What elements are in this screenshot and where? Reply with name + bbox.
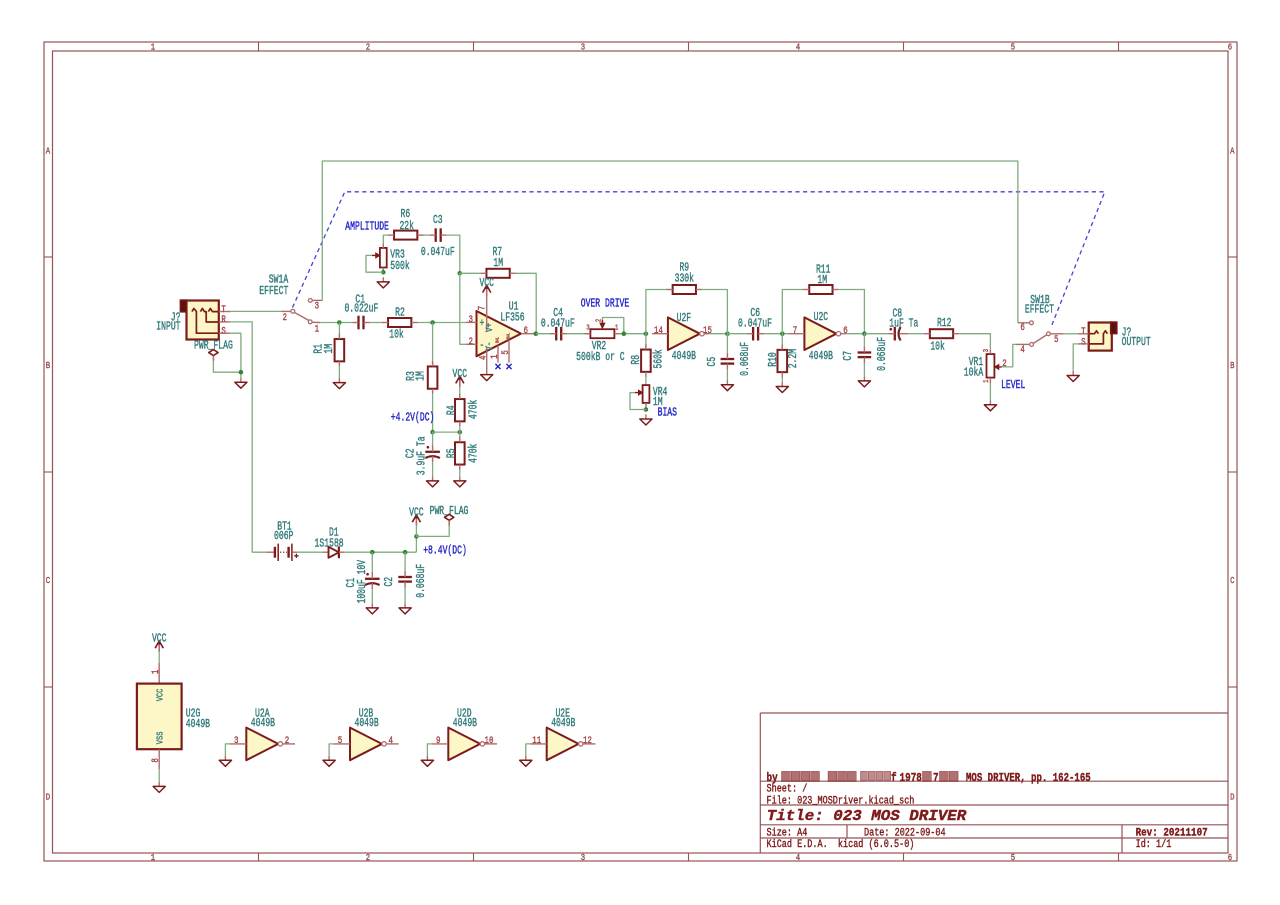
svg-text:1: 1 xyxy=(151,852,156,863)
switch SW1A pin3 circle xyxy=(308,299,312,303)
inverter U2B 4049B xyxy=(350,728,382,761)
junction C1 power tap xyxy=(370,550,375,555)
svg-text:V+: V+ xyxy=(484,323,496,332)
svg-text:2: 2 xyxy=(285,736,290,747)
U2E output pin xyxy=(583,743,595,745)
svg-text:4: 4 xyxy=(1020,345,1025,356)
svg-text:AMPLITUDE: AMPLITUDE xyxy=(345,220,389,233)
svg-text:C3: C3 xyxy=(433,214,443,227)
resistor R4 xyxy=(455,399,465,421)
svg-text:22k: 22k xyxy=(399,220,414,233)
wire U2G pin8 to ground xyxy=(158,769,160,782)
switch SW1A pin2 circle xyxy=(291,309,295,313)
junction input sleeve xyxy=(239,370,244,375)
wire C7 to ground xyxy=(863,363,865,376)
svg-text:5: 5 xyxy=(501,350,512,355)
U2B output pin xyxy=(386,743,398,745)
U2B input pin xyxy=(333,743,350,745)
svg-text:R6: R6 xyxy=(401,208,411,221)
svg-text:File: 023_MOSDriver.kicad_sch: File: 023_MOSDriver.kicad_sch xyxy=(767,796,915,808)
junction U2F input node xyxy=(644,331,649,336)
svg-text:11: 11 xyxy=(532,736,541,747)
U2A input pin xyxy=(229,743,246,745)
switch SW1A pin3 stub xyxy=(312,299,322,301)
switch SW1B pin4 circle xyxy=(1030,343,1034,347)
wire node to R10 xyxy=(781,334,783,351)
svg-text:330k: 330k xyxy=(675,273,694,286)
wire VCC to R4 xyxy=(459,387,461,399)
U2D output pin xyxy=(485,743,497,745)
PWR_FLAG (battery) symbol xyxy=(445,514,454,520)
capacitor C8 1uF Ta xyxy=(894,327,896,341)
svg-text:4049B: 4049B xyxy=(186,718,210,731)
ground U2B xyxy=(328,756,330,761)
wire R6 to C3 xyxy=(424,234,430,236)
svg-text:Id: 1/1: Id: 1/1 xyxy=(1136,839,1172,851)
svg-text:4049B: 4049B xyxy=(251,717,275,730)
resistor R6 xyxy=(394,231,417,240)
wire R2 to U1 pin3 xyxy=(418,322,466,324)
ground R1 xyxy=(338,378,340,383)
U2C input pin xyxy=(788,333,804,335)
junction U2F output node xyxy=(725,331,730,336)
svg-text:6: 6 xyxy=(1020,323,1025,334)
svg-text:INPUT: INPUT xyxy=(156,320,180,333)
resistor R3 xyxy=(428,366,438,388)
wire SW1A pin1 to C1 xyxy=(320,322,352,324)
wire SW1B pin5 to output jack xyxy=(1064,333,1078,335)
resistor R12 xyxy=(930,329,953,338)
svg-text:VCC: VCC xyxy=(453,368,468,381)
svg-text:VCC: VCC xyxy=(479,277,494,290)
svg-text:0.047uF: 0.047uF xyxy=(738,318,772,331)
ground C7 xyxy=(863,376,865,381)
junction C2 power tap xyxy=(403,550,408,555)
wire R11 feedback right xyxy=(839,290,865,334)
svg-text:9: 9 xyxy=(436,736,441,747)
ground C1 (power) xyxy=(371,603,373,608)
junction R3 tap xyxy=(430,320,435,325)
potentiometer VR4 body xyxy=(643,385,650,403)
svg-text:VCC: VCC xyxy=(154,688,165,701)
switch SW1B pin5 stub xyxy=(1050,333,1064,335)
wire node to R8 xyxy=(645,334,647,350)
switch SW1B pin5 circle xyxy=(1047,332,1051,336)
svg-text:3: 3 xyxy=(983,349,991,353)
svg-text:4049B: 4049B xyxy=(551,717,575,730)
svg-text:LF356: LF356 xyxy=(500,311,524,324)
svg-text:PWR_FLAG: PWR_FLAG xyxy=(430,505,469,518)
junction R1 tap xyxy=(337,320,342,325)
power VCC (battery rail) xyxy=(415,517,417,526)
wire U2E input to ground xyxy=(526,744,530,756)
svg-text:B: B xyxy=(1230,360,1235,371)
svg-text:500k: 500k xyxy=(390,260,409,273)
wire VR2 wiper loop xyxy=(602,318,623,334)
svg-text:EFFECT: EFFECT xyxy=(1025,304,1054,317)
svg-text:f: f xyxy=(891,772,897,785)
svg-text:C7: C7 xyxy=(842,351,855,361)
title block frame xyxy=(759,713,761,853)
svg-text:2: 2 xyxy=(1002,359,1007,370)
wire to PWR_FLAG xyxy=(416,526,449,537)
U2G pin1 line xyxy=(158,663,160,684)
ground C2 (power) xyxy=(404,603,406,608)
wire C2 to ground xyxy=(432,462,434,476)
wire junction to R3 xyxy=(432,323,434,367)
svg-text:0.022uF: 0.022uF xyxy=(344,302,378,315)
svg-text:7: 7 xyxy=(933,772,939,785)
svg-text:VCC: VCC xyxy=(152,633,167,646)
potentiometer VR2 body xyxy=(590,329,614,338)
wire C6 to U2C xyxy=(764,333,788,335)
wire U2D input to ground xyxy=(427,744,431,756)
capacitor C5 xyxy=(721,358,735,360)
ground R10 xyxy=(781,382,783,387)
power VCC above U2G xyxy=(158,643,160,652)
ground R5 xyxy=(459,476,461,481)
capacitor C1 xyxy=(357,316,359,330)
svg-text:1uF Ta: 1uF Ta xyxy=(889,318,918,331)
svg-text:R10: R10 xyxy=(767,352,780,367)
wire node to C8 xyxy=(864,333,892,335)
wire node down to U1 pin2 xyxy=(460,273,466,344)
wire C3 to R7 node xyxy=(447,235,460,273)
switch SW1A pin1 stub xyxy=(312,321,320,323)
wire R3 to +4.2V junction xyxy=(432,394,434,432)
svg-text:2: 2 xyxy=(469,337,474,348)
svg-text:LEVEL: LEVEL xyxy=(1001,379,1025,392)
svg-text:15: 15 xyxy=(703,326,712,337)
svg-text:10: 10 xyxy=(485,736,494,747)
svg-text:1M: 1M xyxy=(415,371,428,381)
ground output jack xyxy=(1072,371,1074,376)
svg-text:R5: R5 xyxy=(445,448,458,458)
IC U2G 4049B power block xyxy=(137,684,182,750)
wire C1 power down xyxy=(371,552,373,573)
wire VCC to U2G pin1 xyxy=(158,652,160,663)
svg-text:2: 2 xyxy=(366,42,371,53)
wire R7 right to U1 output xyxy=(516,273,536,333)
svg-text:VSS: VSS xyxy=(154,731,165,744)
svg-text:1M: 1M xyxy=(817,274,827,287)
wire node to C6 xyxy=(727,333,747,335)
switch SW1B lever xyxy=(1033,335,1046,344)
svg-text:R2: R2 xyxy=(395,306,405,319)
wire junction to R1 xyxy=(338,323,340,340)
U2A output pin xyxy=(283,743,295,745)
svg-text:6: 6 xyxy=(1228,852,1233,863)
switch SW1A lever xyxy=(294,312,308,320)
U2G pin8 line xyxy=(158,749,160,769)
inverter U2D 4049B xyxy=(448,728,480,761)
wire R1 to ground xyxy=(338,367,340,378)
svg-text:1: 1 xyxy=(151,670,162,675)
ground VR3 xyxy=(382,277,384,282)
svg-text:U2C: U2C xyxy=(814,311,829,324)
svg-text:10k: 10k xyxy=(930,341,945,354)
resistor R7 xyxy=(486,269,509,278)
svg-text:3: 3 xyxy=(469,315,474,326)
PWR_FLAG (input) symbol xyxy=(209,350,218,356)
svg-text:5: 5 xyxy=(1011,42,1016,53)
resistor R5 xyxy=(455,442,465,464)
svg-text:+4.2V(DC): +4.2V(DC) xyxy=(391,412,435,425)
wire R9 feedback right xyxy=(702,290,728,334)
svg-text:R: R xyxy=(221,315,226,326)
op-amp U1 LF356 xyxy=(477,311,522,356)
no-connect X U1 pin5 xyxy=(506,364,511,369)
resistor R9 xyxy=(673,285,696,294)
wire to VCC arrow xyxy=(415,526,417,537)
no-connect X U1 pin1 xyxy=(495,364,500,369)
ground C5 xyxy=(726,380,728,385)
svg-text:0.068uF: 0.068uF xyxy=(876,337,889,371)
wire U2F out to C5 node xyxy=(709,333,727,335)
capacitor C7 xyxy=(858,351,872,353)
ground U2E xyxy=(525,756,527,761)
svg-text:KiCad E.D.A. kicad (6.0.5-0): KiCad E.D.A. kicad (6.0.5-0) xyxy=(767,839,915,851)
input jack J? xyxy=(187,301,219,340)
svg-text:3: 3 xyxy=(234,736,239,747)
junction U1 output xyxy=(534,331,539,336)
svg-text:1M: 1M xyxy=(493,257,503,270)
resistor R11 xyxy=(809,285,832,294)
wire VR1 wiper to SW1B pin4 xyxy=(1002,344,1016,367)
battery BT1 xyxy=(266,551,274,553)
wire C1 to R2 xyxy=(370,322,382,324)
wire bias node to C2 xyxy=(432,432,434,446)
svg-text:D: D xyxy=(1230,791,1235,802)
power VCC above R4 xyxy=(459,378,461,387)
svg-text:MOS DRIVER, pp. 162-165: MOS DRIVER, pp. 162-165 xyxy=(966,772,1091,785)
ground U2G xyxy=(158,782,160,787)
svg-text:A: A xyxy=(1230,145,1235,156)
svg-text:A: A xyxy=(46,145,51,156)
svg-text:7: 7 xyxy=(478,306,489,311)
svg-text:4049B: 4049B xyxy=(453,717,477,730)
output jack J? xyxy=(1089,323,1112,351)
svg-text:3: 3 xyxy=(581,852,586,863)
capacitor C2 0.068uF (power) xyxy=(398,576,412,578)
svg-text:R8: R8 xyxy=(630,355,643,365)
wire U2B input to ground xyxy=(329,744,333,756)
svg-text:S: S xyxy=(1081,337,1086,348)
svg-text:8: 8 xyxy=(151,758,162,763)
wire C8 to R12 xyxy=(908,333,924,335)
svg-text:100uF 10V: 100uF 10V xyxy=(356,560,369,604)
svg-text:BIAS: BIAS xyxy=(658,406,677,419)
wire R12 to VR1 xyxy=(959,334,990,350)
svg-text:10kA: 10kA xyxy=(964,367,983,380)
wire U1 out to C4 xyxy=(536,333,553,335)
inverter U2F 4049B xyxy=(668,317,700,350)
svg-text:0.068uF: 0.068uF xyxy=(739,342,752,376)
svg-text:Date: 2022-09-04: Date: 2022-09-04 xyxy=(864,827,946,839)
ground VR1 xyxy=(989,400,991,405)
svg-text:4049B: 4049B xyxy=(672,350,696,363)
resistor R10 xyxy=(778,350,788,372)
svg-text:5: 5 xyxy=(338,736,343,747)
U2E input pin xyxy=(530,743,547,745)
svg-text:OUTPUT: OUTPUT xyxy=(1122,336,1151,349)
svg-text:R12: R12 xyxy=(937,317,952,330)
capacitor C4 xyxy=(555,327,557,341)
junction U2C output node xyxy=(862,331,867,336)
wire C4 to VR2 xyxy=(567,333,590,335)
wire R11 feedback left xyxy=(782,290,803,334)
svg-text:C: C xyxy=(1230,575,1235,586)
switch SW1A pin1 circle xyxy=(308,320,312,324)
svg-text:560k: 560k xyxy=(653,349,666,368)
dashed blue bypass line xyxy=(293,192,1105,328)
svg-text:470k: 470k xyxy=(468,400,481,419)
wire R9 feedback left xyxy=(646,290,667,334)
inverter U2E 4049B xyxy=(547,728,579,761)
svg-text:D: D xyxy=(46,791,51,802)
svg-text:4049B: 4049B xyxy=(355,717,379,730)
wire VR4 bottom stub xyxy=(642,409,646,411)
svg-text:EFFECT: EFFECT xyxy=(259,285,288,298)
svg-text:B: B xyxy=(46,360,51,371)
junction U2C input node xyxy=(780,331,785,336)
frame division ticks xyxy=(258,42,260,51)
junction VR2 wiper tie xyxy=(622,331,627,336)
svg-text:14: 14 xyxy=(654,326,663,337)
wire VR3 wiper to bottom xyxy=(366,255,379,272)
svg-text:5: 5 xyxy=(1011,852,1016,863)
switch SW1B pin4 stub xyxy=(1016,343,1030,345)
potentiometer VR3 body xyxy=(380,248,387,268)
wire power rail up xyxy=(415,536,417,552)
U2C output pin xyxy=(841,333,846,335)
svg-text:3: 3 xyxy=(581,42,586,53)
wire U2A input to ground xyxy=(225,744,229,756)
wire VR3 top to R6 xyxy=(383,235,388,243)
switch SW1A pin2 stub xyxy=(281,310,291,312)
ground input sleeve xyxy=(240,378,242,383)
svg-text:6: 6 xyxy=(843,326,848,337)
svg-text:VCC: VCC xyxy=(409,507,424,520)
wire C5 to ground xyxy=(726,370,728,380)
svg-text:+8.4V(DC): +8.4V(DC) xyxy=(423,544,467,557)
ground U2D xyxy=(426,756,428,761)
wire R10 to ground xyxy=(781,378,783,382)
svg-text:4: 4 xyxy=(388,736,393,747)
svg-text:3: 3 xyxy=(586,325,590,333)
wire jack T to SW1A pin2 xyxy=(230,310,280,312)
svg-text:1: 1 xyxy=(315,325,320,336)
svg-text:1: 1 xyxy=(490,354,501,359)
resistor R1 xyxy=(335,339,345,361)
wire R4 to bias node xyxy=(459,427,461,432)
svg-text:6: 6 xyxy=(1228,42,1233,53)
svg-text:2.2M: 2.2M xyxy=(787,349,800,368)
svg-text:12: 12 xyxy=(583,736,592,747)
U2D input pin xyxy=(431,743,448,745)
wire battery to D1 xyxy=(298,551,323,553)
resistor R2 xyxy=(388,318,411,327)
capacitor C6 xyxy=(752,327,754,341)
svg-text:R4: R4 xyxy=(445,405,458,415)
resistor R8 xyxy=(641,350,651,372)
svg-text:Title: 023 MOS DRIVER: Title: 023 MOS DRIVER xyxy=(767,808,968,825)
capacitor C3 xyxy=(435,228,437,242)
power VCC at U1 pin7 xyxy=(486,287,488,296)
svg-text:3.9uF Ta: 3.9uF Ta xyxy=(416,436,429,475)
svg-text:V-: V- xyxy=(484,342,496,351)
ground C2 (Ta) xyxy=(432,476,434,481)
svg-text:500kB or C: 500kB or C xyxy=(576,351,625,364)
potentiometer VR1 body xyxy=(987,354,995,378)
svg-text:Size: A4: Size: A4 xyxy=(767,827,808,839)
svg-text:2: 2 xyxy=(366,852,371,863)
svg-text:S: S xyxy=(221,326,226,337)
wire VR2 to U2F node xyxy=(620,333,646,335)
junction R7/C3 node xyxy=(458,271,463,276)
capacitor C2 3.9uF Ta xyxy=(425,451,440,453)
svg-text:BAL: BAL xyxy=(507,333,511,339)
switch SW1B pin6 stub xyxy=(1018,322,1030,324)
svg-text:5: 5 xyxy=(1054,335,1059,346)
wire jack sleeve S down xyxy=(230,333,241,377)
svg-text:Rev: 20211107: Rev: 20211107 xyxy=(1136,827,1208,839)
wire VR1 bottom to ground xyxy=(989,383,991,400)
svg-text:006P: 006P xyxy=(274,530,293,543)
wire R8 to VR4 xyxy=(645,377,647,385)
svg-text:0.068uF: 0.068uF xyxy=(415,564,428,598)
svg-text:0.047uF: 0.047uF xyxy=(421,246,455,259)
wire R7 left xyxy=(460,272,481,274)
ground U1 pin4 xyxy=(486,370,488,375)
junction VR3 bottom xyxy=(381,270,386,275)
wire bias node pair xyxy=(433,431,460,433)
inverter U2C 4049B xyxy=(804,317,836,350)
svg-text:1978: 1978 xyxy=(900,772,922,785)
svg-text:1: 1 xyxy=(151,42,156,53)
wire bias node to R5 xyxy=(459,432,461,443)
inverter U2A 4049B xyxy=(246,728,278,761)
wire D1 to VCC node xyxy=(345,551,417,553)
svg-text:C5: C5 xyxy=(706,357,719,367)
wire C2 power down xyxy=(404,552,406,571)
svg-text:0.047uF: 0.047uF xyxy=(541,318,575,331)
wire R5 to ground xyxy=(459,470,461,476)
svg-text:470k: 470k xyxy=(468,444,481,463)
wire output sleeve to ground xyxy=(1073,344,1078,371)
svg-text:7: 7 xyxy=(793,326,798,337)
svg-text:2: 2 xyxy=(282,313,287,324)
svg-text:1: 1 xyxy=(615,325,619,333)
svg-text:U2F: U2F xyxy=(677,312,692,325)
svg-text:10k: 10k xyxy=(389,328,404,341)
junction bias node right xyxy=(458,430,463,435)
U2F output pin xyxy=(704,333,709,335)
svg-text:4: 4 xyxy=(479,356,490,361)
svg-text:C: C xyxy=(46,575,51,586)
svg-text:BAL: BAL xyxy=(496,337,500,343)
wire node to C7 xyxy=(863,334,865,347)
wire C1 power to ground xyxy=(371,589,373,603)
wire bypass top run SW1A pin3 to SW1B pin6 xyxy=(322,161,1018,323)
ground VR4 xyxy=(645,414,647,419)
svg-text:C2: C2 xyxy=(383,577,396,587)
ground U2A xyxy=(224,756,226,761)
wire U2C out to C7 node xyxy=(846,333,865,335)
svg-text:3: 3 xyxy=(315,302,320,313)
U2F input pin xyxy=(652,333,668,335)
wire VR3 bottom short xyxy=(379,271,384,273)
